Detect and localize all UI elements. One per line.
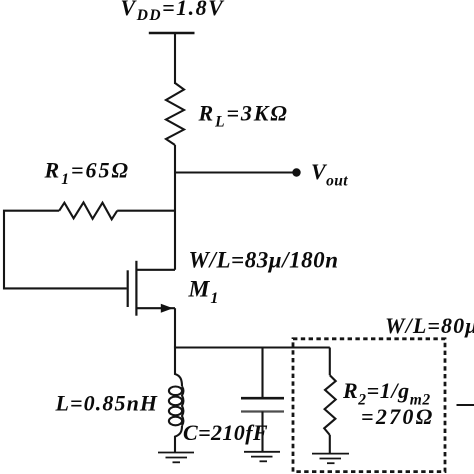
inductor L lead and entry [175,347,182,387]
capacitor C top plate [241,397,284,400]
ground under capacitor [244,452,280,462]
svg-text:C=210fF: C=210fF [183,420,268,445]
wire R1 left lead [4,211,127,289]
transistor M1 channel bar [135,261,137,316]
ground under R2 [312,454,349,464]
svg-text:W/L=83μ/180n: W/L=83μ/180n [189,248,339,273]
inductor L right rail [182,386,183,425]
resistor RL [166,83,184,145]
capacitor C bottom plate [241,410,284,412]
transistor M1 source lead [136,307,175,309]
wire capacitor bottom lead [261,412,263,452]
wire source column [174,308,176,347]
svg-text:L=0.85nH: L=0.85nH [55,391,159,416]
resistor R1 [59,202,117,219]
transistor M1 drain lead [136,269,175,271]
transistor M1 source arrow [161,304,173,313]
dashed box (second stage) [293,339,445,472]
ground under inductor [158,453,194,463]
wire RL to drain (vertical column) [174,145,176,270]
svg-text:=270Ω: =270Ω [361,404,434,429]
power rail VDD [149,32,195,34]
wire to Vout [175,171,296,173]
wire R1 right lead [117,210,175,212]
wire R2 bottom lead [329,435,331,453]
transistor M1 gate bar [127,270,129,307]
inductor L exit and lead [175,426,182,453]
wire capacitor top lead [261,348,263,398]
wire VDD to RL [174,33,176,84]
svg-text:W/L=80μ: W/L=80μ [385,313,474,338]
node Vout dot [292,168,300,176]
resistor R2 [324,375,336,435]
wire R2 top lead [329,348,331,376]
inductor L loops [169,387,182,396]
wire source net horizontal [175,346,330,348]
wire stub to next stage (right edge) [457,404,474,406]
